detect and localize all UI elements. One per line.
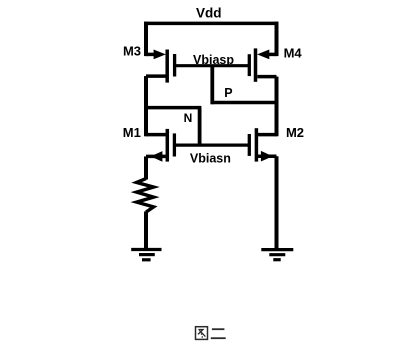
ground (right) bbox=[261, 250, 293, 260]
svg-text:M1: M1 bbox=[123, 125, 141, 140]
wire node P horizontal bbox=[211, 101, 279, 105]
wire Vbiasp gate rail bbox=[175, 64, 250, 67]
transistor M2 bbox=[249, 128, 276, 161]
wire Vdd rail bbox=[144, 22, 279, 26]
wire M3 drain down to M1 drain bbox=[144, 76, 148, 136]
caption 图二 (figure 2) drawn as strokes bbox=[196, 327, 226, 340]
wire Vdd to M4 source bbox=[275, 22, 279, 56]
wire Vbiasn gate rail bbox=[174, 144, 249, 147]
svg-text:Vdd: Vdd bbox=[196, 6, 222, 21]
svg-text:M2: M2 bbox=[286, 125, 304, 140]
resistor R bbox=[137, 179, 154, 213]
wire node N stub to gate rail bbox=[198, 108, 202, 146]
wire Vdd to M3 source bbox=[144, 22, 148, 56]
svg-text:P: P bbox=[224, 86, 232, 100]
wire M1 source down bbox=[144, 156, 148, 179]
transistor M4 bbox=[249, 48, 276, 81]
transistor M1 bbox=[146, 129, 174, 162]
wire node N horizontal bbox=[144, 106, 201, 110]
ground (left) bbox=[131, 250, 161, 260]
wire node P stub from gate rail bbox=[210, 66, 214, 105]
wire M2 source down bbox=[275, 156, 279, 249]
svg-text:M3: M3 bbox=[123, 44, 141, 59]
svg-text:M4: M4 bbox=[284, 45, 303, 60]
transistor M3 bbox=[146, 50, 175, 83]
svg-text:Vbiasn: Vbiasn bbox=[190, 152, 231, 166]
svg-text:N: N bbox=[184, 111, 193, 125]
svg-text:Vbiasp: Vbiasp bbox=[193, 53, 234, 67]
wire resistor to ground bbox=[144, 212, 148, 250]
wire M4 drain down to M2 drain bbox=[275, 77, 279, 137]
